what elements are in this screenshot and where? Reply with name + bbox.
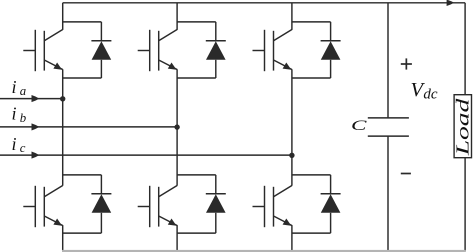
wire phase b input line [0, 126, 177, 128]
diode D1 (freewheeling) [91, 22, 111, 78]
wire leg b upper: rail to Q3 collector [176, 3, 178, 30]
wire Q3 collector to D3 cathode [177, 21, 216, 23]
wire leg b middle: Q3 emitter to Q4 collector [176, 69, 178, 185]
arrowhead phase b current direction [32, 123, 40, 130]
wire Q6 emitter to D6 anode [292, 232, 331, 234]
diode D4 (freewheeling) [206, 175, 226, 233]
transistor Q4 (IGBT) [138, 186, 177, 228]
transistor Q6 (IGBT) [253, 186, 292, 228]
capacitor C [368, 118, 409, 136]
label minus (DC bus polarity) [401, 173, 411, 175]
wire Q5 emitter to D5 anode [292, 77, 331, 79]
svg-text:C: C [351, 118, 367, 134]
wire Q2 emitter to D2 anode [63, 232, 102, 234]
wire Q1 emitter to D1 anode [63, 77, 102, 79]
wire leg c upper: rail to Q5 collector [291, 3, 293, 30]
wire Q3 emitter to D3 anode [177, 77, 216, 79]
wire Q5 collector to D5 cathode [292, 21, 331, 23]
wire Q4 collector to D4 cathode [177, 174, 216, 176]
wire phase a input line [0, 98, 63, 100]
wire leg c lower: Q6 emitter to bottom rail [291, 225, 293, 251]
diode D3 (freewheeling) [206, 22, 226, 78]
wire leg b lower: Q4 emitter to bottom rail [176, 225, 178, 251]
wire phase c input line [0, 154, 292, 156]
wire leg a upper: rail to Q1 collector [62, 3, 64, 30]
transistor Q3 (IGBT) [138, 30, 177, 72]
arrowhead phase c current direction [32, 152, 40, 159]
wire top DC rail [63, 2, 465, 4]
diode D6 (freewheeling) [321, 175, 341, 233]
node phase a junction [60, 96, 65, 101]
label + (DC bus polarity) [401, 58, 412, 69]
load box [453, 95, 473, 158]
wire leg c middle: Q5 emitter to Q6 collector [291, 69, 293, 185]
wire Q6 collector to D6 cathode [292, 174, 331, 176]
diode D2 (freewheeling) [91, 175, 111, 233]
wire leg a middle: Q1 emitter to Q2 collector [62, 69, 64, 185]
arrowhead phase a current direction [32, 95, 40, 102]
node phase b junction [174, 124, 179, 129]
node phase c junction [289, 153, 294, 158]
wire Q4 emitter to D4 anode [177, 232, 216, 234]
wire capacitor C to bottom rail [387, 136, 389, 251]
wire bottom DC rail (clipped at image edge) [62, 250, 466, 252]
svg-text:Load: Load [453, 98, 473, 157]
transistor Q1 (IGBT) [23, 30, 62, 72]
wire top rail to load [464, 3, 466, 95]
wire leg a lower: Q2 emitter to bottom rail [62, 225, 64, 251]
wire Q2 collector to D2 cathode [63, 174, 102, 176]
diode D5 (freewheeling) [321, 22, 341, 78]
wire Q1 collector to D1 cathode [63, 21, 102, 23]
wire top rail to capacitor C [387, 3, 389, 118]
transistor Q5 (IGBT) [253, 30, 292, 72]
arrowhead on top rail [447, 0, 455, 6]
transistor Q2 (IGBT) [23, 186, 62, 228]
wire load to bottom rail [464, 158, 466, 252]
